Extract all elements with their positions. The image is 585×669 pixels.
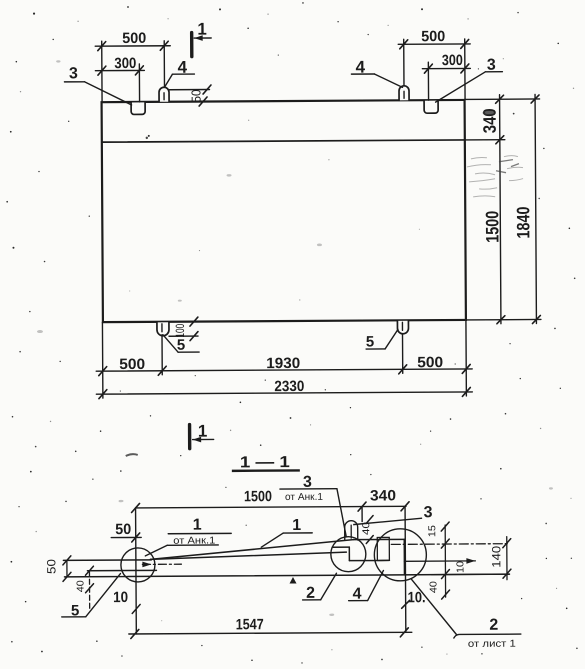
svg-text:1930: 1930 <box>266 355 300 372</box>
svg-text:1 — 1: 1 — 1 <box>240 454 290 471</box>
svg-text:2330: 2330 <box>274 378 304 395</box>
svg-text:500: 500 <box>417 354 443 371</box>
svg-text:1840: 1840 <box>513 207 533 239</box>
svg-text:50: 50 <box>189 90 204 103</box>
svg-text:40: 40 <box>429 581 440 594</box>
svg-text:50: 50 <box>44 559 58 574</box>
svg-text:1: 1 <box>197 20 207 39</box>
svg-text:1: 1 <box>198 422 208 441</box>
svg-text:1: 1 <box>193 517 202 534</box>
svg-text:10: 10 <box>455 560 466 573</box>
svg-text:300: 300 <box>442 52 463 69</box>
svg-text:от Анк.1: от Анк.1 <box>285 492 324 503</box>
svg-text:10: 10 <box>113 589 128 606</box>
svg-text:40: 40 <box>75 580 86 593</box>
svg-text:2: 2 <box>489 617 498 634</box>
svg-text:500: 500 <box>122 30 146 47</box>
svg-text:15: 15 <box>427 525 438 538</box>
svg-text:1500: 1500 <box>482 211 502 243</box>
svg-text:100: 100 <box>173 323 187 337</box>
svg-text:от лист 1: от лист 1 <box>468 639 517 650</box>
svg-text:140: 140 <box>489 545 503 567</box>
svg-text:340: 340 <box>370 487 396 504</box>
svg-text:5: 5 <box>366 333 374 350</box>
svg-text:3: 3 <box>487 57 496 74</box>
svg-text:10.: 10. <box>408 589 426 606</box>
svg-text:3: 3 <box>424 504 433 521</box>
svg-text:500: 500 <box>421 28 445 45</box>
svg-text:1500: 1500 <box>244 488 272 505</box>
svg-text:300: 300 <box>114 55 136 72</box>
svg-text:1: 1 <box>292 517 301 534</box>
svg-text:500: 500 <box>119 356 145 373</box>
svg-text:4: 4 <box>178 58 188 77</box>
svg-text:1547: 1547 <box>236 616 264 633</box>
svg-text:от Анк.1: от Анк.1 <box>173 535 216 546</box>
svg-text:50: 50 <box>115 521 131 538</box>
svg-text:3: 3 <box>69 65 78 82</box>
